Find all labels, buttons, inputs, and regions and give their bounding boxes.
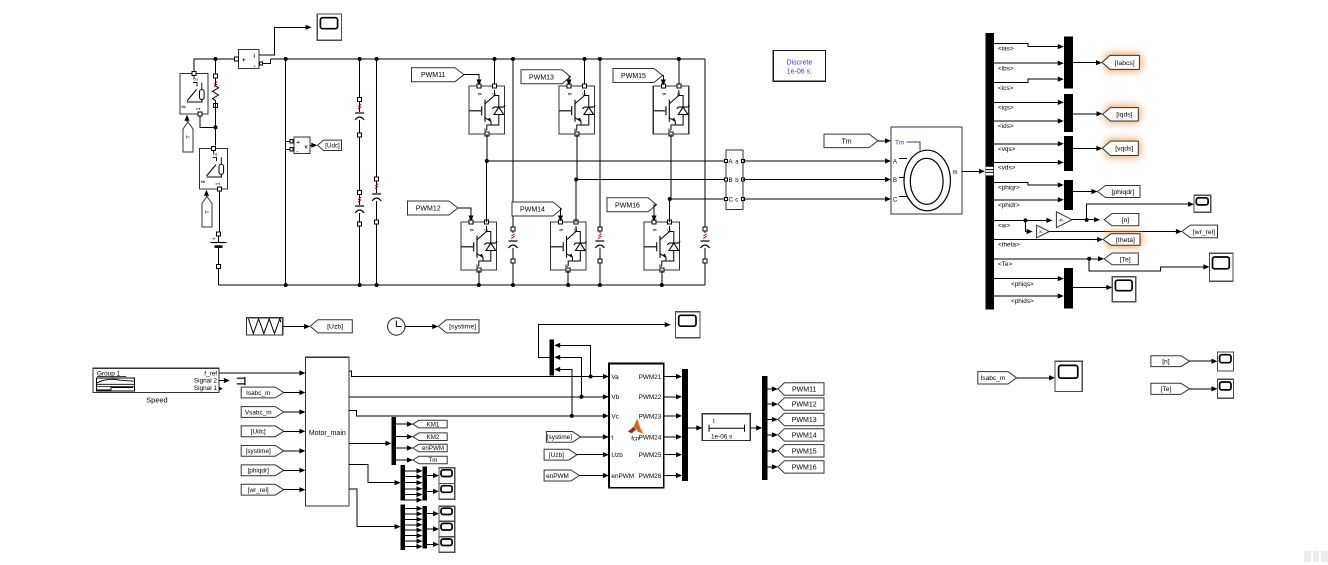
svg-text:g: g: [200, 180, 206, 183]
svg-text:PWM23: PWM23: [639, 413, 662, 420]
svg-text:[Iabcs]: [Iabcs]: [1115, 60, 1135, 67]
svg-text:E: E: [573, 128, 579, 131]
svg-text:PWM11: PWM11: [421, 72, 445, 79]
svg-text:Isabc_m: Isabc_m: [980, 375, 1005, 382]
svg-text:[wr_rel]: [wr_rel]: [248, 487, 269, 494]
svg-text:PWM13: PWM13: [792, 417, 817, 424]
svg-text:Motor_main: Motor_main: [309, 430, 346, 437]
svg-text:g: g: [559, 228, 564, 231]
svg-text:<theta>: <theta>: [998, 242, 1020, 249]
svg-text:KM2: KM2: [427, 434, 440, 441]
svg-text:Vsabc_m: Vsabc_m: [245, 409, 272, 416]
svg-text:PWM16: PWM16: [792, 464, 817, 471]
svg-text:g: g: [662, 92, 667, 95]
svg-text:[systime]: [systime]: [449, 324, 476, 331]
svg-text:g: g: [470, 228, 475, 231]
svg-text:-K-: -K-: [1058, 217, 1065, 223]
svg-text:enPWM: enPWM: [546, 473, 569, 480]
svg-text:<ibs>: <ibs>: [998, 65, 1014, 72]
svg-text:+: +: [297, 140, 300, 146]
svg-text:[phiqdr]: [phiqdr]: [248, 468, 270, 475]
svg-text:enPWM: enPWM: [422, 445, 444, 452]
svg-text:<w>: <w>: [998, 223, 1010, 230]
svg-text:PWM13: PWM13: [529, 74, 554, 81]
svg-text:[wr_rel]: [wr_rel]: [1193, 229, 1215, 236]
svg-text:1e-06 s.: 1e-06 s.: [787, 69, 812, 76]
svg-text:PWM15: PWM15: [621, 73, 646, 80]
svg-text:Tm: Tm: [895, 140, 904, 147]
svg-text:<ics>: <ics>: [998, 85, 1014, 92]
svg-text:T: T: [186, 135, 192, 139]
svg-text:<ids>: <ids>: [998, 123, 1014, 130]
svg-text:PWM26: PWM26: [639, 473, 662, 480]
svg-text:PWM25: PWM25: [639, 452, 662, 459]
svg-text:B: B: [893, 178, 897, 184]
svg-text:t: t: [611, 434, 613, 441]
svg-text:-: -: [297, 149, 299, 155]
svg-text:<vds>: <vds>: [998, 165, 1016, 172]
svg-text:<phidr>: <phidr>: [998, 202, 1020, 209]
svg-text:C: C: [729, 197, 734, 203]
svg-text:E: E: [475, 264, 481, 267]
svg-text:[iqds]: [iqds]: [1116, 112, 1132, 119]
svg-text:m: m: [953, 170, 958, 176]
svg-text:[Udc]: [Udc]: [325, 143, 340, 150]
svg-text:g: g: [653, 228, 658, 231]
svg-text:[systime]: [systime]: [246, 448, 271, 455]
svg-text:Discrete: Discrete: [787, 60, 813, 67]
svg-text:<phiqr>: <phiqr>: [998, 185, 1020, 192]
svg-text:[n]: [n]: [1122, 217, 1130, 224]
svg-text:<phids>: <phids>: [1011, 298, 1034, 305]
svg-text:PWM11: PWM11: [792, 387, 816, 394]
svg-text:<Te>: <Te>: [998, 261, 1012, 268]
svg-text:A: A: [729, 159, 733, 165]
svg-text:+: +: [213, 237, 216, 243]
svg-text:KM1: KM1: [427, 421, 440, 428]
svg-text:<iqs>: <iqs>: [998, 105, 1014, 112]
svg-text:C: C: [893, 198, 898, 204]
svg-text:-K-: -K-: [1038, 229, 1044, 234]
svg-text:f_ref: f_ref: [204, 370, 217, 377]
svg-text:[vqds]: [vqds]: [1115, 146, 1133, 153]
svg-text:E: E: [483, 128, 489, 131]
svg-text:PWM12: PWM12: [416, 206, 441, 213]
svg-text:[Uzb]: [Uzb]: [549, 452, 564, 459]
svg-text:Signal 1: Signal 1: [194, 385, 218, 392]
svg-text:[systime]: [systime]: [547, 434, 572, 441]
svg-text:1: 1: [216, 182, 222, 185]
svg-text:<ias>: <ias>: [998, 46, 1014, 53]
svg-text:t: t: [713, 418, 715, 425]
svg-text:g: g: [181, 105, 187, 108]
svg-text:PWM12: PWM12: [792, 402, 817, 409]
svg-text:2: 2: [213, 153, 219, 156]
svg-text:[n]: [n]: [1162, 359, 1169, 366]
svg-text:PWM16: PWM16: [615, 202, 640, 209]
svg-text:PWM22: PWM22: [639, 394, 662, 401]
svg-text:Signal 2: Signal 2: [194, 378, 218, 385]
svg-text:Uzb: Uzb: [611, 452, 623, 459]
svg-text:+: +: [242, 58, 246, 64]
svg-text:E: E: [658, 264, 664, 267]
svg-text:1e-06 s: 1e-06 s: [711, 433, 732, 440]
svg-text:PWM14: PWM14: [792, 432, 817, 439]
svg-text:Tm: Tm: [841, 138, 851, 145]
svg-text:A: A: [893, 160, 897, 166]
svg-text:g: g: [478, 92, 483, 95]
svg-text:Va: Va: [611, 374, 619, 381]
svg-text:E: E: [564, 264, 570, 267]
svg-text:[Te]: [Te]: [1161, 386, 1172, 393]
svg-text:PWM24: PWM24: [639, 434, 662, 441]
svg-text:E: E: [667, 128, 673, 131]
svg-text:Isabc_m: Isabc_m: [246, 390, 270, 397]
svg-text:<vqs>: <vqs>: [998, 146, 1016, 153]
svg-text:enPWM: enPWM: [611, 473, 634, 480]
svg-text:Vb: Vb: [611, 394, 619, 401]
svg-text:B: B: [729, 178, 733, 184]
svg-text:-: -: [254, 64, 256, 70]
svg-text:Speed: Speed: [146, 396, 167, 405]
svg-text:[theta]: [theta]: [1116, 237, 1135, 244]
svg-text:c: c: [735, 197, 738, 203]
svg-text:g: g: [568, 92, 573, 95]
svg-text:[Uzb]: [Uzb]: [327, 324, 343, 331]
svg-text:[Te]: [Te]: [1120, 256, 1131, 263]
svg-text:[phiqdr]: [phiqdr]: [1111, 189, 1134, 196]
svg-text:PWM15: PWM15: [792, 448, 817, 455]
svg-text:PWM21: PWM21: [639, 374, 662, 381]
svg-text:1: 1: [196, 107, 202, 110]
svg-text:[Udc]: [Udc]: [251, 429, 266, 436]
svg-text:2: 2: [193, 78, 199, 81]
svg-text:PWM14: PWM14: [520, 207, 545, 214]
svg-text:Vc: Vc: [611, 413, 619, 420]
svg-text:Tm: Tm: [429, 457, 438, 464]
svg-text:<phiqs>: <phiqs>: [1011, 281, 1034, 288]
svg-text:T: T: [205, 210, 211, 214]
svg-text:fcn: fcn: [631, 437, 639, 443]
